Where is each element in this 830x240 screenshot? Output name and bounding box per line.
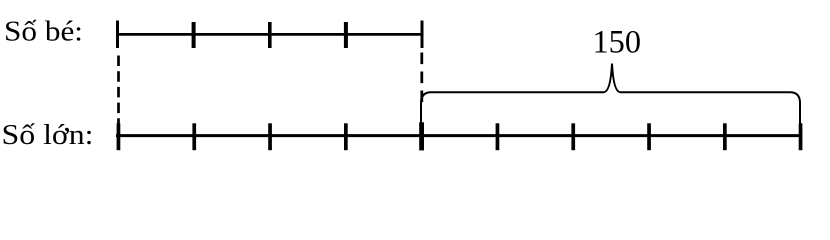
bottom bar tick 3 bbox=[268, 123, 272, 150]
bottom bar line (Số lớn) bbox=[116, 134, 802, 137]
bottom bar tick 2 bbox=[192, 123, 196, 150]
top bar line (Số bé) bbox=[116, 33, 424, 36]
svg-text:150: 150 bbox=[593, 25, 642, 61]
top bar tick 4 bbox=[344, 22, 348, 48]
svg-text:Số bé:: Số bé: bbox=[4, 16, 83, 48]
bottom bar tick 4 bbox=[344, 123, 348, 150]
top bar tick 2 bbox=[192, 22, 196, 48]
bottom bar tick 6 bbox=[496, 123, 500, 150]
top bar tick 3 bbox=[268, 22, 272, 48]
top bar tick 1 (left end) bbox=[116, 21, 119, 49]
dashed vertical line right bbox=[420, 53, 423, 103]
bottom bar tick 1 (left end) bbox=[117, 123, 121, 150]
bottom bar tick 5 (bold, under top-bar end) bbox=[419, 122, 424, 150]
dashed vertical line left bbox=[117, 56, 120, 129]
svg-text:Số lớn:: Số lớn: bbox=[2, 119, 94, 151]
bottom bar tick 9 bbox=[723, 123, 727, 150]
bottom bar tick 7 bbox=[571, 123, 575, 150]
bottom bar tick 8 bbox=[647, 123, 651, 150]
bottom bar tick 10 (right end) bbox=[799, 123, 803, 150]
top bar tick 5 (right end) bbox=[421, 21, 424, 49]
brace for 150 bbox=[421, 64, 800, 124]
